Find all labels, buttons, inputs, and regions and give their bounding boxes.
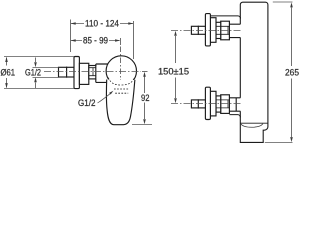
side view: center line xyxy=(44,71,141,73)
tick at cartridge axis xyxy=(120,38,122,45)
top fitting: hub xyxy=(210,18,216,43)
top fitting: neck xyxy=(216,22,221,38)
body outline xyxy=(240,2,268,142)
dim O61 flange diameter xyxy=(4,57,74,89)
top fitting: pipe xyxy=(191,26,205,34)
control cap circle xyxy=(106,56,136,86)
dim 92 handle height xyxy=(132,72,152,125)
hidden thread rows (dashed) xyxy=(114,88,129,90)
bottom fitting: neck xyxy=(216,96,221,112)
outlet shoulder line xyxy=(240,122,268,124)
svg-text:G1/2: G1/2 xyxy=(78,98,96,109)
top stop-valve housing silhouette xyxy=(210,16,240,19)
top inlet center line xyxy=(171,30,242,32)
svg-text:85 - 99: 85 - 99 xyxy=(83,35,108,46)
dim G1/2 inlet thread xyxy=(33,58,59,89)
threaded neck xyxy=(89,66,96,79)
bottom fitting: hub xyxy=(210,91,216,116)
extension line right (handle front) xyxy=(133,21,135,59)
top fitting: nut xyxy=(221,21,230,40)
bottom fitting: connector xyxy=(229,98,241,111)
top nut facet lines xyxy=(216,26,229,34)
wall flange (escutcheon) xyxy=(74,57,79,89)
svg-text:Ø61: Ø61 xyxy=(1,67,16,78)
svg-text:265: 265 xyxy=(285,68,299,79)
bottom fitting: nut xyxy=(221,95,230,114)
flange hub xyxy=(79,63,88,84)
svg-text:92: 92 xyxy=(141,93,150,104)
bottom inlet center line xyxy=(171,103,242,105)
dim 85-99 xyxy=(71,38,121,80)
lever handle xyxy=(106,80,134,125)
top fitting: connector xyxy=(229,24,241,37)
dim 150+-15 xyxy=(175,36,177,98)
label G1/2 outlet with leader xyxy=(98,93,112,103)
bottom nut facet lines xyxy=(216,100,229,108)
bottom outlet-elbow silhouette xyxy=(229,115,240,118)
bottom fitting: pipe xyxy=(191,100,205,108)
bottom union line xyxy=(197,99,199,108)
extension line left (wall) xyxy=(70,20,72,53)
dim 110-124 xyxy=(71,20,134,60)
hidden cap arc (dashed) xyxy=(108,78,134,86)
svg-text:110 - 124: 110 - 124 xyxy=(85,19,119,30)
dashed axis to cartridge xyxy=(120,47,122,81)
bottom fitting: flange xyxy=(205,87,210,119)
dim 265 xyxy=(265,2,293,143)
union nut line on pipe xyxy=(66,67,68,78)
svg-text:G1/2: G1/2 xyxy=(25,67,41,78)
top union line xyxy=(197,26,199,35)
inlet pipe P1 xyxy=(59,67,75,77)
svg-text:150±15: 150±15 xyxy=(158,67,189,78)
neck facet lines xyxy=(89,68,96,76)
top fitting: flange xyxy=(205,14,210,46)
valve body xyxy=(96,64,111,82)
outlet nut curved bottom xyxy=(241,124,263,127)
